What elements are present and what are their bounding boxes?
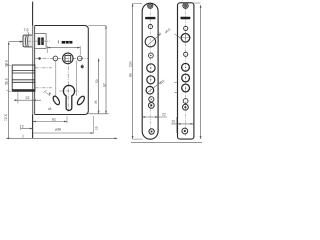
small circle left of follower <box>53 56 58 61</box>
right oval fixing hole <box>76 95 86 106</box>
svg-text:28: 28 <box>48 107 52 111</box>
faceplate edge line <box>32 2 34 139</box>
svg-text:38.5: 38.5 <box>4 60 8 67</box>
svg-text:230: 230 <box>129 61 133 67</box>
right side dimension lines <box>88 25 106 27</box>
follower row center line <box>35 57 88 59</box>
svg-text:⌀36: ⌀36 <box>55 128 61 132</box>
deadbolt center dash lines <box>35 67 52 69</box>
small hole f <box>183 99 188 104</box>
svg-text:85: 85 <box>129 73 133 77</box>
svg-text:22: 22 <box>162 112 166 116</box>
svg-text:57: 57 <box>102 83 106 87</box>
dim line under text <box>47 47 80 49</box>
screw dot near plate <box>38 57 40 59</box>
left vertical dimension chain <box>8 42 10 139</box>
latch center line <box>20 40 51 42</box>
small hole <box>184 26 188 30</box>
screw hole mid <box>148 103 154 109</box>
svg-text:50: 50 <box>95 79 99 83</box>
bold hole 2 <box>147 76 155 84</box>
faceplate inner line <box>34 26 36 115</box>
faceplate center dash line <box>149 6 151 135</box>
screw hole mid <box>183 104 189 110</box>
bold hole d <box>182 74 190 82</box>
latch spring bars <box>38 37 41 45</box>
faceplate height dimension <box>132 4 134 140</box>
dim line to latch at its axis <box>9 41 23 43</box>
leader to R4 <box>148 34 160 45</box>
latch bolt head <box>23 35 32 47</box>
width dim across strike plate <box>171 123 193 125</box>
small cross hole <box>149 97 154 102</box>
handle follower circle <box>63 53 74 64</box>
screw hole top <box>148 3 153 8</box>
screw hole top <box>183 3 188 8</box>
dim 61 <box>66 116 68 123</box>
svg-text:22: 22 <box>26 96 30 100</box>
strike plate outline <box>178 3 194 139</box>
vertical center dash line through follower and cylinder <box>67 52 69 112</box>
bold hole e <box>182 84 190 92</box>
tick marks left of plate <box>175 82 177 84</box>
bold hole a <box>181 34 190 43</box>
screw hole bottom <box>149 129 154 134</box>
small hole with dot <box>149 53 154 58</box>
dim o36 <box>93 116 95 134</box>
small hole <box>148 25 152 29</box>
long bottom dim line <box>6 137 117 139</box>
dim 22 below deadbolt <box>17 91 19 103</box>
faceplate outline <box>142 3 158 139</box>
deadbolt stack <box>12 65 35 91</box>
svg-text:25: 25 <box>172 120 176 124</box>
small hole b <box>184 52 188 56</box>
svg-text:72.5: 72.5 <box>4 114 8 121</box>
bold hole 1 <box>147 64 155 72</box>
screw hole bottom <box>182 128 188 134</box>
small circle right of follower <box>78 56 83 61</box>
euro cylinder hole <box>63 85 74 110</box>
extension line right through body <box>76 61 78 96</box>
follower square hole <box>65 56 71 62</box>
latch tail box <box>35 34 46 49</box>
svg-text:2: 2 <box>22 124 24 128</box>
strike plate center dash <box>184 5 186 136</box>
bold hole 3 with leader <box>146 86 154 94</box>
bold hole c <box>182 63 190 71</box>
svg-text:61: 61 <box>52 117 56 121</box>
faceplate shading <box>33 26 35 115</box>
left oval fixing hole <box>52 95 61 106</box>
cylinder horizontal dash line <box>59 90 79 92</box>
svg-text:35.5: 35.5 <box>4 78 8 85</box>
top small text row <box>58 40 60 43</box>
svg-text:15: 15 <box>95 126 99 130</box>
latch opening circle <box>145 37 155 47</box>
extension line left through body <box>55 61 57 96</box>
brand text block <box>145 17 155 19</box>
strike plate height dimension <box>200 5 202 139</box>
screw dot below right circle <box>81 65 84 68</box>
bottom line under plates <box>131 141 202 143</box>
svg-text:35: 35 <box>94 100 98 104</box>
lock body outline <box>35 26 89 115</box>
width dim across faceplate <box>142 116 167 118</box>
vertical ext left of strike plate <box>176 117 178 133</box>
brand text block <box>181 17 191 19</box>
